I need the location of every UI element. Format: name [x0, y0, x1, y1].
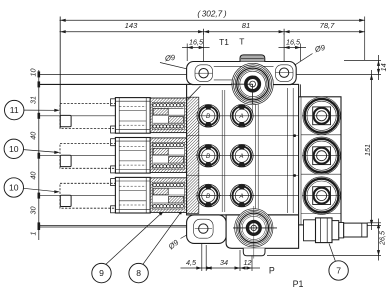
tick at x284.1 — [279, 30, 285, 33]
callout balloon 7 — [329, 261, 348, 280]
work port B at row y=115.8 — [197, 104, 220, 127]
spool 2 rod envelope (hidden) — [60, 143, 116, 168]
small joint dots — [293, 134, 296, 137]
extension line body left edge for 16,5 — [186, 44, 188, 62]
bottom dim extension x206.2 — [205, 245, 207, 271]
body top-right step edge — [300, 84, 302, 96]
svg-text:B: B — [206, 114, 210, 120]
extension line y74.4 (hole centre) — [39, 73, 187, 75]
spool 2 centerline — [39, 155, 341, 157]
T boss centreline stub — [252, 105, 254, 118]
svg-text:143: 143 — [125, 21, 138, 30]
dimension line 143 / 81 / 78,7 — [60, 31, 365, 33]
body section joint lines — [187, 135, 299, 137]
callout balloon 9 — [92, 263, 111, 282]
P boss crosshair — [233, 227, 277, 229]
dimension (302,7) overall — [60, 19, 365, 21]
spool 3 spring top coils — [153, 183, 156, 186]
bottom tab inner contour — [194, 219, 214, 238]
extension line y60.4 right — [344, 59, 381, 61]
extension line body right edge for 16,5 — [300, 44, 302, 62]
svg-text:10: 10 — [9, 183, 19, 193]
svg-text:16,5: 16,5 — [189, 37, 204, 46]
T port boss backing — [232, 63, 273, 104]
leader 9 — [106, 211, 164, 265]
leader 9 arrowhead — [159, 210, 165, 216]
extension line right overall — [364, 17, 366, 61]
left chain label 30 — [29, 207, 38, 215]
svg-text:11: 11 — [10, 105, 19, 115]
spool 2 spring top coils — [153, 143, 156, 146]
spool 2 clevis block — [60, 155, 71, 166]
spool 3 spring housing (hatched) — [150, 178, 186, 213]
svg-text:1: 1 — [29, 232, 38, 236]
leader 7 — [329, 244, 335, 262]
spool 3 clevis block — [60, 195, 71, 206]
leader 8 — [143, 209, 183, 264]
extension line y227 — [39, 226, 187, 228]
leader 10b — [24, 188, 58, 192]
svg-text:14: 14 — [379, 63, 388, 71]
extension line body bottom y255.6 — [267, 255, 381, 257]
P port boss backing — [235, 209, 273, 247]
body main block — [187, 84, 299, 215]
extension line hole center right x284.1 — [283, 33, 285, 81]
dimension 16,5 right — [279, 47, 307, 49]
extension line fitting pipe top y222.8 — [367, 222, 381, 224]
svg-text:12: 12 — [244, 258, 252, 267]
svg-text:( 302,7 ): ( 302,7 ) — [197, 9, 226, 18]
top tab inner contour right — [276, 65, 294, 82]
leader 11 — [24, 109, 58, 111]
right work port 3 boss ring — [303, 177, 341, 215]
left chain label 10 — [29, 69, 38, 77]
port A clamp slots — [238, 105, 245, 110]
left chain dimension line — [38, 70, 40, 240]
svg-text:A: A — [238, 114, 243, 120]
bottom dim extension x240 — [239, 250, 241, 271]
spool 2 end cap — [111, 138, 151, 174]
dimension 151 — [371, 70, 373, 230]
spool 1 rod envelope (hidden) — [60, 104, 116, 129]
mounting hole bottom — [199, 224, 208, 233]
dimension 14 — [378, 55, 380, 80]
label diam 9 top-right with leader — [313, 43, 327, 55]
spool 1 body-wall gland (hatched) — [187, 103, 198, 129]
spool 2 body-wall gland (hatched) — [187, 143, 198, 169]
svg-text:30: 30 — [29, 207, 38, 215]
chain tick y=115.8 — [38, 113, 41, 119]
spool 3 body-wall gland (hatched) — [187, 182, 198, 208]
chain tick y=195.6 — [38, 193, 41, 199]
label diam 9 top-left with leader — [163, 53, 176, 64]
port A clamp slots — [238, 185, 245, 190]
svg-text:7: 7 — [336, 266, 341, 276]
svg-text:81: 81 — [242, 21, 250, 30]
extension line y74.4 right — [292, 73, 381, 75]
spool 3 spring bottom coils — [153, 205, 156, 208]
leader 8 arrowhead — [178, 208, 184, 214]
right ports block — [299, 97, 341, 225]
right work port 2 boss ring — [303, 137, 341, 175]
extension line left (spool1 end face) — [59, 17, 61, 129]
svg-text:Ø9: Ø9 — [163, 53, 176, 64]
chain tick y=227.0 — [38, 224, 41, 230]
tick at x203.6 — [198, 30, 204, 33]
mounting hole top-left — [199, 69, 208, 78]
left chain label 40 — [29, 172, 38, 180]
spool 2 spring housing (hatched) — [150, 138, 186, 173]
bottom dimension line 4,5 / 34 / 12 — [181, 267, 261, 269]
spool 3 end cap — [111, 177, 151, 213]
top mounting tab — [187, 62, 297, 85]
callout balloon 11 — [5, 100, 24, 119]
top tab inner strip lines — [214, 65, 274, 67]
body left wall hatched column — [187, 97, 199, 213]
extension line y225.4 — [39, 224, 196, 226]
dimension 26,5 — [378, 219, 380, 261]
label diam 9 bottom rotated with leader — [166, 237, 181, 251]
spool 1 clevis block — [60, 115, 71, 126]
spool 1 spring top coils — [153, 104, 156, 107]
work port A at row y=195.6 — [230, 184, 253, 207]
svg-text:10: 10 — [9, 144, 19, 154]
svg-text:P: P — [269, 266, 275, 276]
extension line y84.4 (body top edge) — [39, 83, 187, 85]
svg-text:151: 151 — [363, 144, 372, 156]
svg-text:10: 10 — [29, 69, 38, 77]
svg-text:16,5: 16,5 — [286, 37, 301, 46]
work port A at row y=115.8 — [230, 104, 253, 127]
svg-text:34: 34 — [220, 258, 228, 267]
T port top bump — [240, 55, 265, 62]
svg-text:40: 40 — [29, 132, 38, 140]
svg-text:8: 8 — [136, 268, 141, 278]
svg-text:31: 31 — [29, 96, 38, 104]
chain tick y=155.7 — [38, 153, 41, 159]
spool 1 spring housing (hatched) — [150, 98, 186, 133]
P port boss — [235, 209, 273, 247]
extension line hole center left x203.6 — [203, 33, 205, 81]
spool 3 stepped spool lands — [153, 188, 168, 195]
callout balloon 10 — [4, 139, 23, 158]
svg-text:78,7: 78,7 — [320, 21, 336, 30]
svg-text:B: B — [206, 154, 210, 160]
port B clamp slots — [205, 185, 212, 190]
chain tick y=74.4 — [38, 71, 41, 77]
dimension 16,5 left — [182, 47, 210, 49]
svg-text:4,5: 4,5 — [186, 258, 197, 267]
spool 2 spring bottom coils — [153, 165, 156, 168]
spool 3 centerline — [39, 195, 341, 197]
chain tick y=84.4 — [38, 81, 41, 87]
T boss crosshair — [231, 83, 253, 85]
callout balloon 8 — [129, 263, 148, 282]
svg-text:A: A — [238, 194, 243, 200]
left chain label 1 — [29, 232, 38, 236]
work port A at row y=155.7 — [230, 144, 253, 167]
mounting hole top-right — [279, 68, 288, 77]
left chain label 31 — [29, 96, 38, 104]
body top-left corner chamfer — [188, 86, 201, 100]
top tab inner contour left — [195, 65, 213, 82]
svg-text:9: 9 — [99, 268, 104, 278]
bottom dim extension x252 — [251, 250, 253, 271]
P1 outlet fitting — [304, 218, 368, 243]
work port B at row y=155.7 — [197, 144, 220, 167]
port A clamp slots — [238, 145, 245, 150]
svg-text:A: A — [238, 154, 243, 160]
port B clamp slots — [205, 105, 212, 110]
bottom centre block — [226, 215, 299, 248]
port B clamp slots — [205, 145, 212, 150]
P boss centreline — [253, 206, 255, 259]
work port B at row y=195.6 — [197, 184, 220, 207]
bottom bump below P — [243, 248, 265, 256]
callout balloon 10 — [4, 178, 23, 197]
spool 1 end cap — [111, 98, 151, 134]
chain tick y=225.4 — [38, 222, 41, 228]
svg-text:T1: T1 — [219, 37, 229, 47]
T port boss — [232, 63, 273, 104]
bottom dim extension x201.8 — [201, 234, 203, 271]
left chain label 40 — [29, 132, 38, 140]
extension line y225.4 right — [343, 224, 381, 226]
spool 1 centerline — [39, 115, 341, 117]
right work port 1 boss ring — [303, 97, 341, 135]
svg-text:B: B — [206, 194, 210, 200]
spool 3 rod envelope (hidden) — [60, 183, 116, 208]
spool 1 stepped spool lands — [153, 108, 168, 115]
svg-text:26,5: 26,5 — [377, 230, 386, 246]
bottom mounting tab — [187, 215, 227, 244]
leader 10a — [24, 150, 58, 153]
svg-text:40: 40 — [29, 172, 38, 180]
svg-text:P1: P1 — [293, 279, 304, 289]
spool 1 spring bottom coils — [153, 125, 156, 128]
svg-text:T: T — [239, 37, 244, 47]
spool 2 stepped spool lands — [153, 148, 168, 155]
